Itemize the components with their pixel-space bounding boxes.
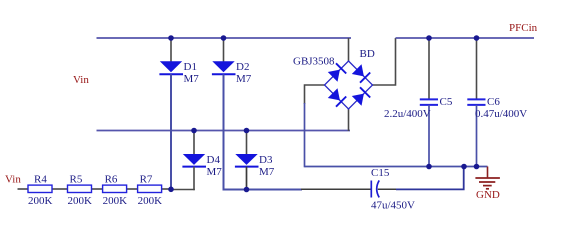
node junction dot net A / D1 cathode bbox=[168, 187, 174, 193]
wire C15 right black stub bbox=[378, 188, 397, 190]
op: bridge rectifier BD GBJ3508 diamond outline bbox=[325, 61, 373, 109]
node junction dot GND rail / C6 bbox=[474, 164, 480, 170]
svg-text:200K: 200K bbox=[103, 195, 128, 207]
svg-text:D1: D1 bbox=[184, 61, 197, 73]
wire GND rail bbox=[305, 166, 488, 168]
svg-text:200K: 200K bbox=[28, 195, 53, 207]
svg-text:0.47u/400V: 0.47u/400V bbox=[475, 108, 527, 120]
svg-text:R7: R7 bbox=[140, 174, 153, 186]
diode bridge arm bottom-right bbox=[352, 87, 370, 105]
wire net B black segment to C15 left plate bbox=[301, 188, 371, 190]
node junction dot middle wire / D4 bbox=[191, 128, 197, 134]
resistor R5 bbox=[68, 174, 93, 208]
svg-text:GND: GND bbox=[476, 189, 500, 201]
diode bridge arm top-right bbox=[352, 64, 370, 82]
wire bridge right corner to PFCin rail bbox=[372, 38, 396, 85]
svg-text:200K: 200K bbox=[68, 195, 93, 207]
node junction dot GND rail / C15 riser bbox=[461, 164, 467, 170]
resistor R6 bbox=[103, 174, 128, 208]
diode bridge arm left-bottom bbox=[328, 88, 346, 106]
node junction dot PFCin rail / C6 bbox=[474, 35, 480, 41]
wire bridge left corner to GND rail bbox=[305, 85, 326, 104]
diode bridge arm left-top bbox=[328, 63, 346, 81]
resistor R7 bbox=[138, 174, 163, 208]
wire resistor chain (net A) bbox=[18, 188, 172, 190]
svg-text:Vin: Vin bbox=[5, 174, 21, 186]
svg-text:GBJ3508: GBJ3508 bbox=[293, 56, 335, 68]
svg-text:M7: M7 bbox=[184, 73, 200, 85]
diode D2 bbox=[212, 38, 252, 85]
node junction dot middle wire / D3 bbox=[244, 128, 250, 134]
capacitor C15 bbox=[371, 167, 415, 212]
node junction dot PFCin rail / C5 bbox=[426, 35, 432, 41]
svg-text:BD: BD bbox=[360, 48, 375, 60]
svg-text:D3: D3 bbox=[259, 154, 273, 166]
diode D3 bbox=[235, 131, 275, 190]
ground GND symbol bbox=[475, 167, 500, 189]
wire PFCin rail bbox=[396, 37, 535, 39]
resistor R4 bbox=[28, 174, 53, 208]
wire top AC line (net Vin) bbox=[97, 37, 352, 39]
diode D1 bbox=[159, 38, 199, 190]
svg-text:M7: M7 bbox=[207, 166, 223, 178]
svg-text:47u/450V: 47u/450V bbox=[371, 200, 415, 212]
svg-text:2.2u/400V: 2.2u/400V bbox=[384, 108, 431, 120]
wire riser middle wire to bridge bottom corner bbox=[348, 108, 350, 131]
svg-text:C6: C6 bbox=[487, 96, 500, 108]
node junction dot GND rail / C5 bbox=[426, 164, 432, 170]
wire D2 cathode down and across to C15 (net B) bbox=[224, 74, 303, 189]
svg-text:C15: C15 bbox=[371, 167, 390, 179]
svg-text:M7: M7 bbox=[259, 166, 275, 178]
capacitor C5 bbox=[384, 38, 453, 167]
svg-text:Vin: Vin bbox=[73, 74, 89, 86]
diode D4 bbox=[182, 131, 222, 191]
svg-text:D2: D2 bbox=[236, 61, 249, 73]
node junction dot top wire / D2 bbox=[221, 35, 227, 41]
svg-text:R5: R5 bbox=[70, 174, 83, 186]
svg-text:R4: R4 bbox=[34, 174, 47, 186]
svg-text:200K: 200K bbox=[138, 195, 163, 207]
svg-text:M7: M7 bbox=[236, 73, 252, 85]
wire C15 right to GND rail bbox=[396, 167, 464, 190]
capacitor C6 bbox=[467, 38, 527, 167]
wire middle AC line (net Vin) bbox=[97, 130, 351, 132]
node junction dot net B / D3 cathode bbox=[244, 187, 250, 193]
svg-text:R6: R6 bbox=[105, 174, 118, 186]
svg-text:D4: D4 bbox=[207, 154, 221, 166]
node junction dot top wire / D1 bbox=[168, 35, 174, 41]
svg-text:PFCin: PFCin bbox=[509, 22, 538, 34]
wire riser top wire to bridge top corner bbox=[348, 38, 350, 62]
svg-text:C5: C5 bbox=[440, 96, 453, 108]
